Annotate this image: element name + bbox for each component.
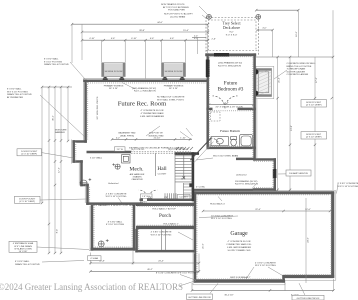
svg-text:36" X 24": 36" X 24" bbox=[169, 88, 178, 90]
boxed label: door pocket lower bbox=[15, 196, 41, 203]
garage right wall bbox=[331, 191, 334, 278]
svg-text:1'-10": 1'-10" bbox=[180, 137, 186, 139]
door arcs hall bbox=[139, 190, 158, 199]
svg-text:©2024 Greater Lansing Associat: ©2024 Greater Lansing Association of REA… bbox=[0, 282, 183, 293]
svg-text:CLOSET: CLOSET bbox=[179, 197, 188, 199]
beam dashed line bbox=[131, 151, 191, 153]
svg-text:W 4" LINE DRAIN: W 4" LINE DRAIN bbox=[14, 245, 32, 248]
garage interior dim bbox=[305, 198, 307, 283]
svg-text:8' X 8'0" WALL: 8' X 8'0" WALL bbox=[7, 88, 22, 91]
svg-text:16'-0": 16'-0" bbox=[296, 31, 298, 37]
svg-text:HOLD BACK 2" AT TOP: HOLD BACK 2" AT TOP bbox=[152, 207, 176, 210]
svg-text:Future: Future bbox=[224, 81, 238, 87]
wall: west v2 bbox=[80, 160, 83, 186]
closet wall segment bbox=[236, 158, 254, 161]
svg-text:36 WIDE 2X DOW: 36 WIDE 2X DOW bbox=[105, 71, 124, 73]
svg-text:4" CONCRETE FLOOR: 4" CONCRETE FLOOR bbox=[227, 241, 250, 243]
svg-text:W 8' X 16" FOOTING: W 8' X 16" FOOTING bbox=[211, 218, 232, 220]
svg-text:(4' X 10" DEEP): (4' X 10" DEEP) bbox=[306, 105, 322, 107]
boxed label: door pocket upper bbox=[17, 149, 42, 156]
svg-text:(3) 11 7/8 LVL: (3) 11 7/8 LVL bbox=[131, 149, 145, 151]
svg-text:DRAIN TILE & POSITIVE: DRAIN TILE & POSITIVE bbox=[7, 93, 32, 96]
bath fixtures bbox=[211, 135, 253, 148]
svg-text:(4' X 10" DEEP): (4' X 10" DEEP) bbox=[21, 154, 37, 156]
door bar bumpout bbox=[273, 169, 277, 178]
bedroom top wall bbox=[205, 53, 256, 56]
svg-text:DOOR POCKET: DOOR POCKET bbox=[19, 198, 36, 200]
svg-text:8' X 4'0" CONCRETE W 8' X 16": 8' X 4'0" CONCRETE W 8' X 16" FOOTING bbox=[156, 272, 198, 274]
svg-text:17'-3": 17'-3" bbox=[59, 167, 61, 173]
svg-text:BASEMENT PAD: BASEMENT PAD bbox=[119, 132, 136, 135]
svg-text:W SLANT DOWN: W SLANT DOWN bbox=[14, 247, 32, 250]
porch bottom wall bbox=[136, 226, 195, 229]
svg-text:R-19 F.G. INSULATION: R-19 F.G. INSULATION bbox=[218, 64, 241, 67]
left side dimension lines bbox=[41, 86, 72, 254]
svg-text:4'0" X 6'8" DR & 2'8" DOOR: 4'0" X 6'8" DR & 2'8" DOOR bbox=[215, 106, 243, 108]
svg-text:Future Rec. Room: Future Rec. Room bbox=[118, 101, 167, 108]
porch labels bbox=[151, 207, 179, 236]
svg-text:8' X 16" FOOTING: 8' X 16" FOOTING bbox=[44, 61, 62, 63]
svg-text:(2) 2X12 BEAM: (2) 2X12 BEAM bbox=[170, 15, 185, 18]
step wall below porch: vertical bbox=[135, 229, 138, 253]
svg-text:Porch: Porch bbox=[159, 213, 172, 219]
svg-text:6'-10": 6'-10" bbox=[131, 38, 137, 40]
boxed label: gutter line left bbox=[187, 294, 213, 299]
svg-text:MOISTURE: MOISTURE bbox=[55, 129, 67, 131]
svg-text:Unfinished: Unfinished bbox=[236, 174, 247, 176]
rec room interior dim bbox=[112, 138, 192, 140]
mech north wall segment bbox=[87, 151, 132, 154]
svg-text:GUTTER LADDER: GUTTER LADDER bbox=[287, 70, 306, 73]
svg-text:(3) 11 7/8 LVL DROP: (3) 11 7/8 LVL DROP bbox=[168, 149, 189, 151]
outer footing line: garage bbox=[193, 191, 336, 285]
svg-text:W 8' X 16" FOOTING: W 8' X 16" FOOTING bbox=[255, 265, 276, 267]
svg-text:W 8' X 16" FOOTING: W 8' X 16" FOOTING bbox=[151, 234, 172, 236]
wall: rec room top bbox=[83, 79, 208, 82]
wall: west upper bbox=[84, 79, 87, 142]
left wall notes bbox=[7, 58, 69, 135]
svg-text:Bedroom #3: Bedroom #3 bbox=[218, 87, 244, 93]
svg-text:GUTTER LINE PROOF: GUTTER LINE PROOF bbox=[188, 297, 212, 299]
boxed label: entrance slab bbox=[9, 241, 37, 253]
svg-text:NO WALKOUT CONCRETE: NO WALKOUT CONCRETE bbox=[157, 96, 185, 99]
top dimension lines bbox=[71, 22, 209, 41]
svg-text:9'-0" X 9'-0": 9'-0" X 9'-0" bbox=[226, 35, 238, 37]
deck above (dashed) bbox=[206, 14, 261, 55]
svg-text:SLOPE TOWARD OHD: SLOPE TOWARD OHD bbox=[228, 249, 251, 252]
svg-text:BOW POCKET: BOW POCKET bbox=[306, 134, 321, 136]
svg-text:36" X 24": 36" X 24" bbox=[109, 88, 118, 90]
floor drain A bbox=[112, 163, 120, 169]
svg-text:Trey Select: Trey Select bbox=[222, 21, 241, 26]
bumpout top bbox=[253, 158, 276, 160]
stair top header bbox=[175, 152, 200, 155]
garage labels bbox=[156, 183, 358, 286]
bumpout right bbox=[274, 158, 276, 191]
svg-text:AT TOP, POLY BETWEEN: AT TOP, POLY BETWEEN bbox=[163, 6, 189, 9]
svg-text:17'-0": 17'-0" bbox=[316, 77, 318, 83]
svg-text:4'-6": 4'-6" bbox=[170, 38, 175, 40]
svg-text:DW FRAMING (W/ S2): DW FRAMING (W/ S2) bbox=[235, 180, 258, 183]
svg-text:28'-8": 28'-8" bbox=[139, 30, 145, 32]
svg-text:21'-4": 21'-4" bbox=[279, 77, 281, 83]
svg-text:13'-8": 13'-8" bbox=[291, 125, 293, 131]
gutter leaders bbox=[210, 283, 305, 295]
svg-text:DRAIN TILE & POSITIVE: DRAIN TILE & POSITIVE bbox=[44, 63, 69, 66]
svg-text:4'-10": 4'-10" bbox=[89, 38, 95, 40]
wall: west jog 3 bbox=[80, 184, 89, 187]
svg-text:DOOR POCKET: DOOR POCKET bbox=[21, 151, 38, 153]
svg-text:36 WIDE 2X DOW: 36 WIDE 2X DOW bbox=[165, 71, 184, 73]
garage top wall bbox=[194, 191, 334, 194]
boxed labels: bow pocket right bbox=[301, 100, 327, 139]
svg-text:45'-2": 45'-2" bbox=[147, 269, 153, 271]
egress notes under wells bbox=[104, 84, 184, 90]
svg-text:24'-0": 24'-0" bbox=[308, 237, 310, 243]
svg-text:8' X 8'0" WALL: 8' X 8'0" WALL bbox=[44, 58, 59, 61]
bottom dimension lines bbox=[89, 251, 334, 296]
svg-text:6 MIL VAPOR BARRIER: 6 MIL VAPOR BARRIER bbox=[140, 115, 164, 118]
svg-text:2'8": 2'8" bbox=[164, 197, 168, 199]
lower-left room: bottom wall bbox=[91, 248, 136, 251]
garage bottom wall bbox=[194, 279, 285, 282]
svg-text:R-19 +/- INSULATION: R-19 +/- INSULATION bbox=[134, 90, 156, 93]
boxed label: gutter line right bbox=[292, 295, 324, 300]
svg-text:4'-6": 4'-6" bbox=[150, 38, 155, 40]
wall: west jog top bbox=[72, 140, 87, 143]
svg-text:4' X 8'0" CONCRETE: 4' X 8'0" CONCRETE bbox=[255, 262, 276, 264]
svg-text:4'-6": 4'-6" bbox=[111, 38, 116, 40]
svg-text:DRAIN TILE & POSITIVE: DRAIN TILE & POSITIVE bbox=[15, 263, 40, 266]
stairs right wall bbox=[192, 152, 195, 201]
svg-text:16 R: 16 R bbox=[181, 179, 186, 181]
svg-text:21'-10": 21'-10" bbox=[154, 137, 161, 139]
svg-text:AIR HANDLER: AIR HANDLER bbox=[130, 173, 145, 176]
svg-text:Hall: Hall bbox=[157, 166, 167, 172]
wall: south wall west part bbox=[86, 202, 143, 205]
svg-text:Future Bathrm: Future Bathrm bbox=[220, 129, 240, 133]
svg-text:22'-8": 22'-8" bbox=[99, 261, 105, 263]
step wall below porch: horizontal to garage bbox=[135, 250, 196, 253]
svg-text:3 1/2" WALL: 3 1/2" WALL bbox=[90, 157, 103, 160]
svg-text:PRIMARY EGRESS: PRIMARY EGRESS bbox=[104, 84, 124, 87]
sump oval bbox=[80, 178, 91, 185]
svg-text:23'-4": 23'-4" bbox=[158, 261, 164, 263]
svg-text:15'-4": 15'-4" bbox=[183, 30, 189, 32]
svg-text:4' X 8'0" CONCRETE: 4' X 8'0" CONCRETE bbox=[106, 193, 127, 195]
svg-text:W 8' X 16" FOOTING: W 8' X 16" FOOTING bbox=[7, 91, 28, 93]
window well W3 (bedroom east) bbox=[256, 66, 274, 98]
svg-text:W/ 8' WALL STEEL POSTS: W/ 8' WALL STEEL POSTS bbox=[157, 98, 184, 101]
svg-text:12'-0": 12'-0" bbox=[305, 209, 311, 211]
leader lines bbox=[37, 6, 338, 279]
deck labels bbox=[222, 21, 241, 37]
svg-text:12'-4": 12'-4" bbox=[223, 103, 229, 105]
svg-text:POST AND PIER: POST AND PIER bbox=[168, 9, 185, 12]
svg-text:4' SLAB: 4' SLAB bbox=[90, 257, 98, 260]
svg-text:PRIMARY EGRESS: PRIMARY EGRESS bbox=[164, 84, 184, 87]
boxed label: slab bbox=[88, 256, 102, 261]
right side dimension lines bbox=[256, 10, 334, 192]
svg-text:W 8' X 16" FOOTING: W 8' X 16" FOOTING bbox=[338, 186, 358, 188]
bedroom bottom wall bbox=[206, 108, 212, 111]
wall: west jog 2 bbox=[72, 160, 82, 163]
svg-text:6 MIL VAPOR BARRIER: 6 MIL VAPOR BARRIER bbox=[227, 246, 251, 249]
svg-text:NON TREATED POSTS: NON TREATED POSTS bbox=[161, 3, 185, 6]
svg-text:36'-2": 36'-2" bbox=[53, 115, 55, 121]
right dim tick extras bbox=[289, 97, 333, 146]
svg-text:Garage: Garage bbox=[230, 231, 248, 237]
svg-text:Unfinished: Unfinished bbox=[108, 183, 119, 185]
posts notes top bbox=[161, 3, 193, 18]
svg-text:10' X 8'0" CONCRETE: 10' X 8'0" CONCRETE bbox=[211, 215, 234, 217]
garage left wall bbox=[194, 191, 197, 282]
svg-text:CONCRETE WINDOW WELL: CONCRETE WINDOW WELL bbox=[287, 63, 317, 65]
svg-text:9'6" HIGH FLR JOISTS: 9'6" HIGH FLR JOISTS bbox=[97, 96, 99, 119]
svg-text:4" PERIMETER DRAIN: 4" PERIMETER DRAIN bbox=[141, 112, 164, 115]
stairs bbox=[165, 138, 214, 200]
boxed label: closet by stairs bbox=[178, 194, 191, 198]
svg-text:36'-0 1/2": 36'-0 1/2" bbox=[224, 294, 233, 296]
svg-text:BARRIER: BARRIER bbox=[55, 131, 65, 134]
svg-text:NOTCH POSTS TO ACCEPT: NOTCH POSTS TO ACCEPT bbox=[164, 13, 193, 16]
svg-text:BRING TILE & POSITIVE: BRING TILE & POSITIVE bbox=[287, 66, 312, 68]
svg-text:4" CONCRETE FLOOR: 4" CONCRETE FLOOR bbox=[140, 110, 163, 112]
svg-text:8' X 8'0" WALL: 8' X 8'0" WALL bbox=[108, 220, 123, 223]
svg-text:4" CONC: 4" CONC bbox=[196, 187, 205, 189]
svg-text:(2X6) FRAMING (W/ S2): (2X6) FRAMING (W/ S2) bbox=[132, 87, 156, 90]
window well W1 (rec room left) bbox=[102, 63, 126, 80]
svg-text:W 8' WARRANTY 8' BOW 12' 2-7/8: W 8' WARRANTY 8' BOW 12' 2-7/8" DEEP LVL bbox=[93, 204, 140, 207]
svg-text:22'-4": 22'-4" bbox=[255, 209, 261, 211]
svg-text:AT PERIMETER: AT PERIMETER bbox=[7, 96, 23, 99]
door arc bath bbox=[210, 138, 220, 148]
svg-text:1'6" W: 1'6" W bbox=[117, 149, 124, 151]
wall: hall south bbox=[147, 199, 196, 202]
svg-text:4'-2": 4'-2" bbox=[116, 137, 121, 139]
bumpout bottom bbox=[253, 188, 276, 190]
window well W2 (rec room right) bbox=[162, 63, 186, 80]
top extension lines bbox=[72, 24, 208, 79]
west wall footing lines bbox=[72, 79, 136, 251]
svg-text:2'-4": 2'-4" bbox=[194, 35, 199, 37]
deck dims bbox=[255, 9, 299, 57]
svg-text:6X6 POST W/: 6X6 POST W/ bbox=[149, 133, 163, 135]
stairs lower treads bbox=[184, 183, 193, 199]
rec room notes bbox=[140, 96, 185, 118]
furnace symbol bbox=[122, 155, 130, 163]
svg-text:8' X 16" FOOTING: 8' X 16" FOOTING bbox=[106, 224, 124, 226]
svg-text:21'-0": 21'-0" bbox=[203, 243, 205, 249]
svg-text:Mech.: Mech. bbox=[129, 167, 144, 173]
svg-text:HOLD BACK 4': HOLD BACK 4' bbox=[210, 202, 225, 205]
svg-text:3'0 W.I.: 3'0 W.I. bbox=[140, 202, 148, 204]
svg-text:CANISTER: CANISTER bbox=[131, 178, 142, 181]
wall: west bump vertical bbox=[72, 140, 75, 163]
left dim extra ticks bbox=[48, 139, 62, 225]
svg-text:2'8": 2'8" bbox=[148, 197, 152, 199]
svg-text:BOW POCKET: BOW POCKET bbox=[306, 102, 321, 104]
svg-text:W10 X 30# STEEL BEAM: W10 X 30# STEEL BEAM bbox=[213, 154, 238, 157]
bedroom left wall bbox=[206, 53, 209, 149]
svg-text:8' X 8'0" WALL: 8' X 8'0" WALL bbox=[15, 260, 30, 263]
wall hatch ticks bbox=[76, 57, 331, 280]
svg-text:(2X6) FRAMING (W/ S2): (2X6) FRAMING (W/ S2) bbox=[218, 62, 242, 65]
svg-text:(SEAL PIPES): (SEAL PIPES) bbox=[120, 134, 134, 137]
porch steps verticals bbox=[162, 230, 166, 251]
bath bottom wall bbox=[209, 147, 256, 150]
window bar bedroom left wall bbox=[206, 60, 210, 78]
svg-text:14' X 36": 14' X 36" bbox=[19, 251, 28, 253]
svg-text:100 AMP SERVICE: 100 AMP SERVICE bbox=[289, 172, 309, 175]
window bar bedroom top wall bbox=[214, 53, 229, 57]
door arc bedroom bbox=[213, 96, 238, 109]
svg-text:3 BASES: 3 BASES bbox=[132, 176, 142, 179]
svg-text:W 8' X 16" FOOTING: W 8' X 16" FOOTING bbox=[106, 196, 127, 198]
east wall bbox=[253, 53, 256, 160]
svg-text:TO RELIEF DRAIN: TO RELIEF DRAIN bbox=[287, 68, 306, 71]
svg-text:9'-0": 9'-0" bbox=[229, 31, 234, 33]
svg-text:2'-6": 2'-6" bbox=[212, 39, 217, 41]
window well note NE bbox=[287, 63, 317, 76]
floor drain B bbox=[98, 239, 108, 247]
svg-text:8'-4": 8'-4" bbox=[57, 229, 59, 234]
svg-text:CONCRETE LADDER: CONCRETE LADDER bbox=[287, 73, 309, 76]
svg-text:44'-0": 44'-0" bbox=[157, 22, 163, 24]
mech hall partition bbox=[155, 154, 157, 177]
svg-text:8' X 8'0" CONCRETE: 8' X 8'0" CONCRETE bbox=[338, 183, 358, 185]
lower-left notes bbox=[15, 193, 140, 265]
svg-text:COMPACTED SAND FILL: COMPACTED SAND FILL bbox=[226, 243, 252, 246]
lower-left room: left wall bbox=[91, 205, 94, 250]
boxed label: 100 amp bbox=[286, 170, 311, 176]
wall: west v3 bbox=[86, 184, 89, 205]
porch top wall bbox=[136, 203, 195, 206]
svg-text:(4' X 10" DEEP): (4' X 10" DEEP) bbox=[19, 201, 35, 203]
boxed label: 1'6 W mech bbox=[115, 147, 126, 151]
svg-text:Deck above: Deck above bbox=[223, 26, 240, 30]
svg-text:4' ENTRANCE SLAB: 4' ENTRANCE SLAB bbox=[13, 242, 34, 245]
svg-text:4'-0": 4'-0" bbox=[262, 27, 267, 29]
footing line above rec top wall bbox=[83, 78, 206, 80]
lower-left room: right wall bbox=[133, 205, 136, 250]
svg-text:(4' X 10" DEEP): (4' X 10" DEEP) bbox=[306, 137, 322, 139]
boxed label: 1'6 W porch bbox=[141, 194, 153, 198]
stair post bbox=[189, 183, 193, 187]
small dim left of deck bbox=[192, 37, 206, 39]
svg-text:CLOSET: CLOSET bbox=[158, 173, 167, 175]
